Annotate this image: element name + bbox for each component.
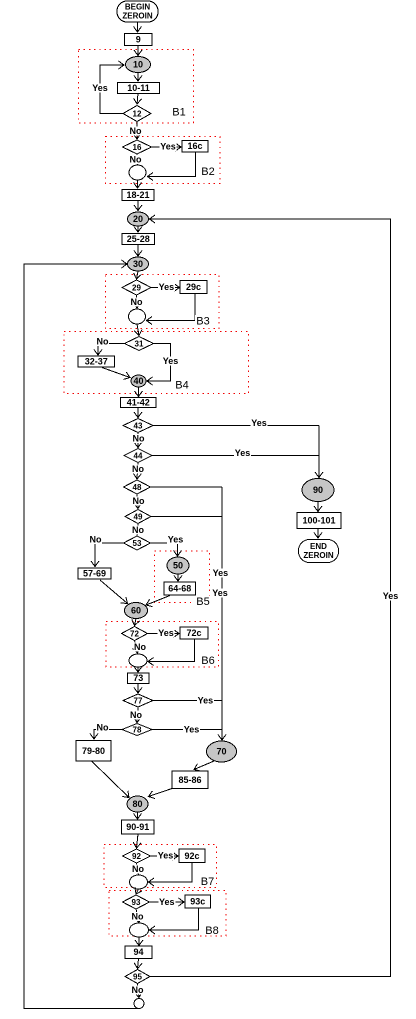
svg-text:92c: 92c	[184, 851, 199, 861]
wire 78 No to 79-80	[94, 730, 122, 740]
svg-text:77: 77	[134, 697, 143, 706]
wire 73 to 77	[137, 684, 139, 694]
process box 73	[128, 673, 150, 684]
junction ellipse B6 junction	[129, 654, 147, 667]
block label B1	[171, 106, 187, 119]
svg-text:No: No	[132, 985, 144, 995]
svg-text:93: 93	[132, 898, 141, 907]
process box 10-11	[118, 83, 160, 94]
wire 48 Yes	[151, 486, 223, 488]
wire 48 No to 49	[137, 494, 138, 509]
decision diamond 77	[123, 694, 153, 707]
svg-text:93c: 93c	[190, 897, 205, 907]
wire 29 Yes to 29c	[151, 287, 180, 289]
block label B6	[200, 655, 216, 668]
svg-text:50: 50	[173, 561, 183, 571]
svg-text:END: END	[310, 542, 327, 551]
label Yes on down wire 1	[212, 568, 229, 578]
decision diamond 16	[123, 140, 152, 154]
wire 94 to 95	[138, 959, 139, 969]
connector node 40	[131, 375, 146, 387]
wire 30 to 29	[137, 271, 139, 279]
svg-text:16c: 16c	[187, 141, 202, 151]
label No under 12	[129, 126, 142, 136]
label Yes 31	[162, 356, 179, 366]
svg-text:10-11: 10-11	[127, 83, 150, 93]
svg-text:40: 40	[133, 376, 143, 386]
decision diamond 31	[125, 337, 154, 351]
wire 10-11 to 12	[137, 94, 138, 105]
wire 49 No to 53	[137, 524, 138, 536]
block label B3	[195, 315, 211, 328]
svg-text:Yes: Yes	[159, 897, 175, 907]
label No under 92	[132, 864, 145, 874]
terminator BEGIN ZEROIN	[117, 1, 158, 22]
svg-text:No: No	[133, 496, 145, 506]
connector node 70	[207, 741, 237, 762]
wire 43 No to 44	[137, 433, 139, 448]
wire 70 to 85-86	[194, 761, 214, 770]
wire 93c to junction	[150, 908, 199, 930]
wire 77 Yes	[153, 700, 222, 702]
wire 95 No to junction	[138, 984, 140, 998]
label No under 43	[132, 434, 145, 444]
process box 94	[125, 946, 152, 959]
process box 64-68	[164, 582, 196, 595]
label Yes 29	[158, 282, 175, 292]
process box 92c	[179, 849, 205, 863]
label Yes B1 loop	[92, 83, 109, 93]
wire 57-69 to 60	[100, 580, 128, 604]
svg-text:No: No	[130, 710, 142, 720]
label Yes 77	[197, 696, 214, 706]
wire junction to 94	[138, 937, 140, 946]
junction ellipse B7 junction	[130, 875, 148, 889]
svg-text:No: No	[130, 126, 142, 136]
dotted region box B3	[106, 275, 220, 329]
process box 72c	[180, 627, 208, 639]
connector node 80	[127, 796, 148, 812]
process box 18-21	[122, 190, 154, 201]
wire 53 No to 57-69	[95, 543, 124, 567]
process box 16c	[182, 141, 208, 153]
connector node 20	[128, 212, 149, 226]
block label B5	[195, 596, 211, 609]
svg-text:25-28: 25-28	[127, 234, 150, 244]
junction ellipse bottom junction	[134, 999, 144, 1009]
svg-text:92: 92	[132, 852, 141, 861]
block label B8	[204, 925, 220, 938]
label Yes 44	[234, 448, 251, 458]
svg-text:Yes: Yes	[158, 628, 174, 638]
wire BEGIN to 9	[137, 22, 139, 32]
svg-text:No: No	[133, 434, 145, 444]
decision diamond 48	[124, 480, 151, 494]
svg-text:Yes: Yes	[168, 535, 184, 545]
wire 41-42 to 43	[137, 408, 139, 418]
decision diamond 92	[123, 849, 151, 863]
wire 9 to 10	[137, 46, 139, 56]
label Yes 78	[183, 725, 200, 735]
wire 10 to 10-11	[137, 73, 139, 82]
connector node 50	[167, 557, 189, 574]
label Yes 53	[167, 535, 184, 545]
dotted region box B5	[155, 551, 210, 603]
label No under 95	[131, 985, 144, 995]
junction ellipse B3 junction	[129, 309, 146, 324]
process box 41-42	[121, 398, 157, 408]
svg-text:B4: B4	[175, 380, 188, 392]
terminator END ZEROIN	[299, 540, 339, 563]
wire feedback 95-Yes to node 20	[150, 219, 391, 977]
label Yes 92	[157, 851, 174, 861]
svg-text:80: 80	[132, 799, 142, 809]
svg-text:No: No	[132, 525, 144, 535]
svg-text:No: No	[132, 864, 144, 874]
label No 53	[89, 535, 102, 545]
svg-text:B5: B5	[196, 596, 209, 608]
svg-text:29c: 29c	[186, 282, 201, 292]
wire 90-91 to 92	[137, 834, 139, 848]
dotted region box B6	[106, 622, 219, 668]
wire 77 No to 78	[137, 707, 138, 723]
svg-text:Yes: Yes	[235, 448, 251, 458]
block label B4	[174, 379, 190, 392]
svg-text:ZEROIN: ZEROIN	[122, 12, 152, 21]
wire 12 Yes loop to 10	[100, 65, 124, 114]
svg-text:41-42: 41-42	[127, 398, 150, 408]
wire 72c to junction	[148, 639, 195, 662]
decision diamond 95	[125, 970, 150, 984]
process box 79-80	[76, 741, 111, 762]
svg-text:Yes: Yes	[158, 851, 174, 861]
wire 92 No to junction	[137, 863, 139, 874]
svg-text:No: No	[90, 535, 102, 545]
decision diamond 12	[123, 106, 151, 122]
wire 16c to junction	[148, 152, 196, 177]
label No under 44	[132, 464, 145, 474]
wire 72 Yes to 72c	[148, 633, 180, 635]
wire 44 No to 48	[137, 463, 138, 480]
decision diamond 43	[123, 419, 153, 433]
svg-text:100-101: 100-101	[302, 516, 335, 526]
process box 32-37	[78, 356, 115, 367]
connector node 90	[302, 479, 334, 502]
wire 79-80 to 80	[92, 762, 129, 798]
svg-text:79-80: 79-80	[82, 746, 105, 756]
label No under 72	[134, 642, 147, 652]
process box 57-69	[78, 568, 111, 579]
svg-text:No: No	[132, 912, 144, 922]
svg-text:53: 53	[133, 539, 142, 548]
wire 16 No to junction	[136, 154, 139, 164]
svg-text:44: 44	[134, 452, 143, 461]
svg-text:43: 43	[134, 422, 143, 431]
svg-text:B8: B8	[205, 925, 218, 937]
label No 31	[96, 337, 109, 347]
label No under 48	[132, 496, 145, 506]
svg-text:9: 9	[136, 35, 141, 45]
wire junction to 31	[137, 324, 139, 336]
label Yes 72	[158, 628, 175, 638]
svg-text:B1: B1	[172, 107, 185, 119]
label Yes 43	[251, 418, 268, 428]
wire 80 to 90-91	[137, 812, 139, 819]
svg-text:18-21: 18-21	[126, 190, 149, 200]
svg-text:78: 78	[133, 726, 142, 735]
wire 93 Yes to 93c	[150, 901, 185, 903]
wire 64-68 to 60	[146, 596, 170, 606]
wire 29c to junction	[147, 294, 196, 321]
decision diamond 72	[122, 627, 148, 641]
svg-text:Yes: Yes	[163, 356, 179, 366]
dotted region box B7	[104, 845, 217, 888]
svg-text:B2: B2	[201, 166, 214, 178]
wire 40 to 41-42	[138, 387, 140, 397]
junction ellipse B8 junction	[130, 923, 149, 937]
dotted region box B4	[64, 332, 249, 394]
svg-text:10: 10	[133, 60, 143, 70]
wire 85-86 to 80	[149, 789, 173, 797]
wire 92c to junction	[149, 863, 193, 883]
svg-text:57-69: 57-69	[83, 569, 106, 579]
process box 100-101	[297, 513, 341, 529]
wire down to node 70	[221, 487, 223, 740]
decision diamond 29	[122, 280, 151, 295]
wire 90 to 100-101	[317, 502, 319, 512]
svg-text:Yes: Yes	[198, 696, 214, 706]
wire 43 Yes	[153, 425, 319, 427]
svg-text:ZEROIN: ZEROIN	[303, 551, 333, 560]
wire 72 No to junction	[135, 641, 138, 654]
wire 93 No to junction	[136, 909, 139, 923]
label No 78	[96, 723, 109, 733]
label Yes on down wire 2	[212, 588, 229, 598]
svg-text:Yes: Yes	[159, 282, 175, 292]
process box 29c	[180, 281, 207, 294]
svg-text:12: 12	[133, 110, 142, 119]
wire junction to 93	[136, 889, 139, 894]
decision diamond 44	[124, 449, 152, 463]
wire 32-37 to 40	[102, 368, 130, 378]
process box 9	[125, 34, 153, 46]
svg-text:85-86: 85-86	[178, 775, 201, 785]
svg-text:Yes: Yes	[184, 725, 200, 735]
connector node 30	[128, 257, 149, 271]
wire 53 Yes to 50	[151, 543, 178, 556]
svg-text:48: 48	[133, 483, 142, 492]
label Yes 16	[160, 142, 177, 152]
wire 92 Yes to 92c	[151, 855, 179, 857]
svg-text:95: 95	[133, 973, 142, 982]
svg-text:31: 31	[135, 340, 144, 349]
svg-text:No: No	[97, 337, 109, 347]
wire junction to 18-21	[137, 180, 139, 188]
label No under 93	[131, 912, 144, 922]
wire feedback to node 30	[24, 264, 139, 1009]
svg-text:32-37: 32-37	[85, 357, 108, 367]
wire 78 Yes	[152, 729, 222, 731]
svg-text:49: 49	[134, 513, 143, 522]
block label B7	[200, 876, 216, 889]
wire junction to 73	[137, 667, 139, 672]
svg-text:B3: B3	[196, 316, 209, 328]
svg-text:Yes: Yes	[212, 588, 228, 598]
decision diamond 53	[124, 536, 151, 550]
connector node 10	[126, 57, 151, 73]
dotted region box B1	[79, 50, 194, 124]
svg-text:60: 60	[131, 606, 141, 616]
dotted region box B2	[106, 137, 221, 184]
wire 100-101 to END	[317, 529, 319, 539]
svg-text:Yes: Yes	[213, 568, 229, 578]
label Yes right loop	[382, 591, 399, 601]
junction ellipse B2 junction	[129, 165, 146, 180]
svg-text:72: 72	[130, 630, 139, 639]
wire 49 Yes	[151, 516, 222, 518]
svg-text:No: No	[134, 642, 146, 652]
wire 16 Yes to 16c	[152, 146, 182, 148]
svg-text:29: 29	[132, 284, 141, 293]
svg-text:94: 94	[133, 947, 143, 957]
svg-text:Yes: Yes	[92, 83, 108, 93]
svg-text:90: 90	[313, 485, 323, 495]
connector node 60	[125, 603, 148, 619]
process box 85-86	[172, 771, 208, 789]
label No under 29	[130, 297, 143, 307]
label Yes 93	[158, 897, 175, 907]
label No under 16	[129, 155, 142, 165]
svg-text:Yes: Yes	[251, 418, 267, 428]
svg-text:No: No	[131, 297, 143, 307]
svg-text:30: 30	[133, 259, 143, 269]
wire 31 No to 32-37	[98, 344, 125, 356]
svg-text:Yes: Yes	[383, 591, 399, 601]
process box 93c	[185, 895, 211, 908]
decision diamond 49	[125, 510, 151, 524]
svg-text:No: No	[130, 155, 142, 165]
wire 12 No to 16	[136, 122, 138, 140]
svg-text:20: 20	[133, 214, 143, 224]
svg-text:No: No	[132, 464, 144, 474]
svg-text:BEGIN: BEGIN	[125, 3, 151, 12]
svg-text:16: 16	[133, 143, 142, 152]
wire 25-28 to 30	[137, 245, 139, 257]
block label B2	[200, 166, 216, 179]
process box 25-28	[122, 234, 155, 245]
decision diamond 93	[123, 895, 150, 909]
svg-text:73: 73	[133, 673, 143, 683]
wire 60 to 72	[135, 619, 137, 626]
wire 50 to 64-68	[177, 574, 179, 581]
svg-text:B7: B7	[201, 876, 214, 888]
svg-text:B6: B6	[201, 655, 214, 667]
decision diamond 78	[122, 724, 152, 736]
svg-text:64-68: 64-68	[168, 584, 191, 594]
wire 20 to 25-28	[137, 226, 139, 232]
svg-text:90-91: 90-91	[126, 822, 149, 832]
wire 44 Yes	[152, 455, 319, 457]
svg-text:Yes: Yes	[160, 142, 176, 152]
svg-text:70: 70	[216, 747, 226, 757]
label No under 49	[132, 525, 145, 535]
process box 90-91	[122, 820, 155, 834]
wire 29 No to junction	[136, 295, 139, 308]
svg-text:No: No	[97, 723, 109, 733]
wire 31 Yes to 40	[147, 344, 171, 382]
wire 18-21 to 20	[137, 201, 139, 211]
label No under 77	[130, 710, 143, 720]
wire down to node 90	[318, 426, 320, 478]
svg-text:72c: 72c	[186, 628, 201, 638]
dotted region box B8	[109, 891, 226, 937]
